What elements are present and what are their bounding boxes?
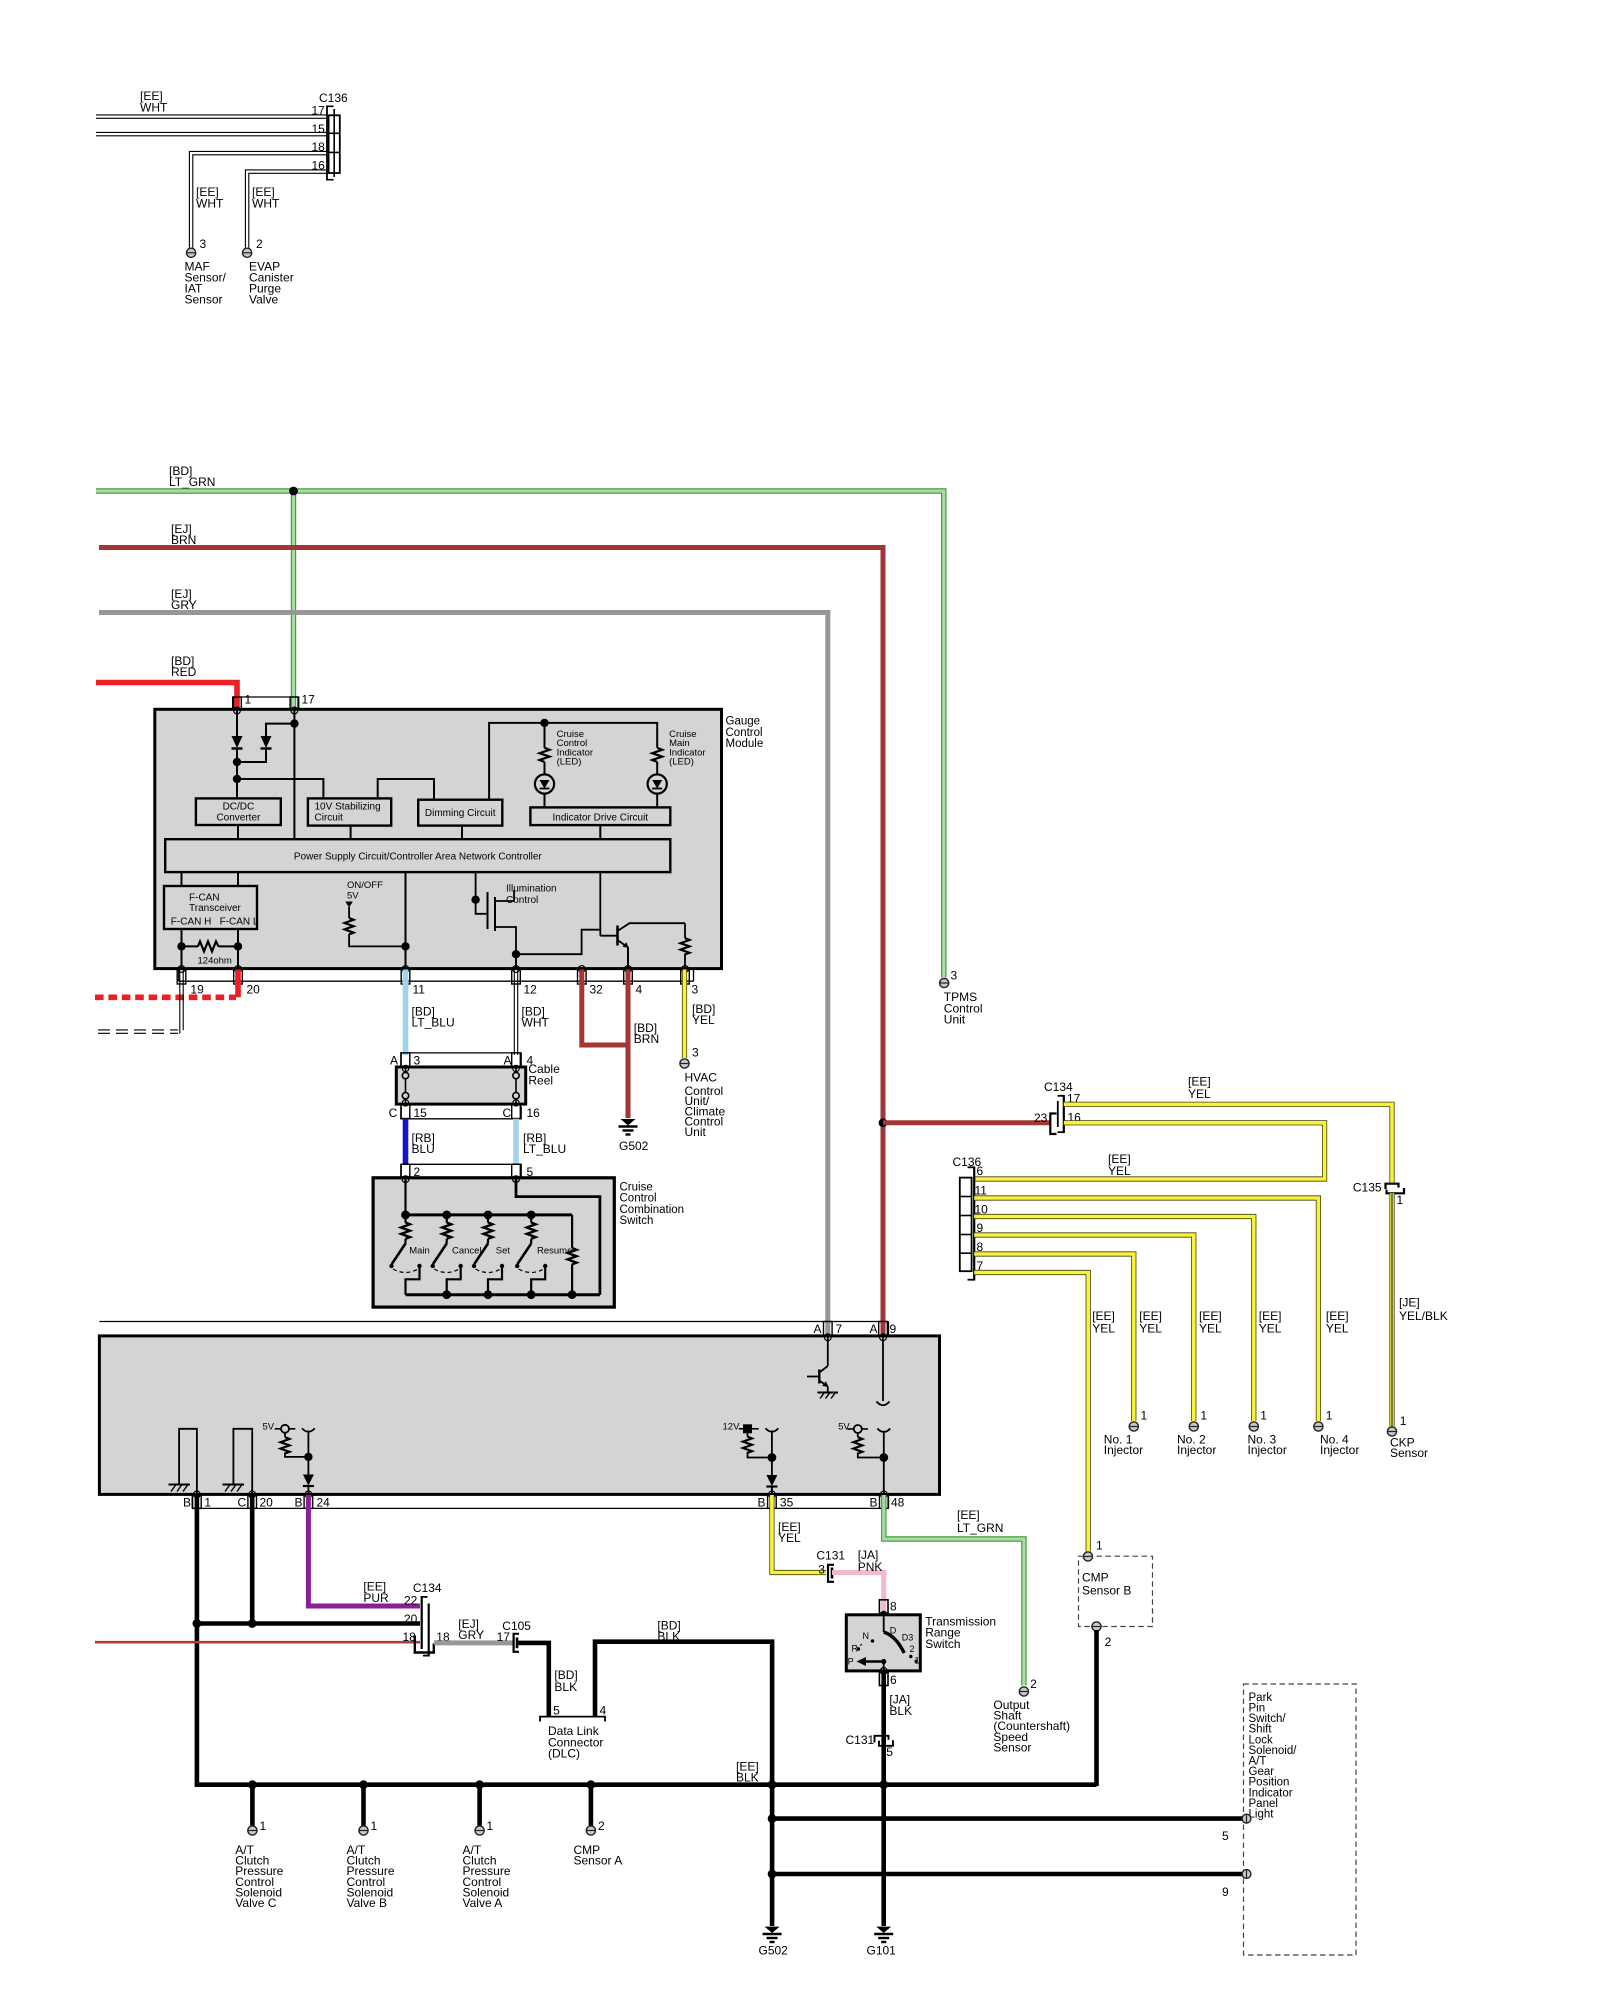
svg-text:Valve A: Valve A xyxy=(463,1896,503,1910)
svg-text:Injector: Injector xyxy=(1320,1443,1359,1457)
cable reel box xyxy=(396,1067,525,1104)
wire 10V box to controller xyxy=(350,826,352,840)
svg-text:[JE]: [JE] xyxy=(1399,1295,1420,1309)
ECM/PCM top pin row xyxy=(99,1321,888,1323)
svg-text:Sensor: Sensor xyxy=(185,293,223,307)
ground G101 xyxy=(876,1927,891,1933)
wire C-20 black down xyxy=(250,1495,255,1624)
svg-text:16: 16 xyxy=(527,1106,541,1120)
wire [JA] BLK TRS pin 6 to G101 xyxy=(881,1672,886,1926)
pin 12 xyxy=(513,966,520,973)
wire drop to CMP sensor A xyxy=(589,1785,594,1826)
svg-text:A: A xyxy=(504,1054,512,1068)
pin B-24 xyxy=(305,1491,312,1498)
wire LED supply rail xyxy=(489,723,657,800)
svg-text:20: 20 xyxy=(260,1496,274,1510)
svg-text:2: 2 xyxy=(1030,1677,1037,1691)
svg-text:Injector: Injector xyxy=(1248,1443,1287,1457)
TRS selector detail xyxy=(883,1612,885,1632)
wire [JE] YEL/BLK to CKP sensor xyxy=(1389,1193,1394,1427)
svg-text:YEL/BLK: YEL/BLK xyxy=(1399,1309,1448,1323)
svg-text:YEL: YEL xyxy=(1188,1087,1211,1101)
svg-text:5: 5 xyxy=(553,1704,560,1718)
svg-text:Control: Control xyxy=(620,1193,657,1205)
svg-text:C: C xyxy=(389,1106,398,1120)
svg-text:Light: Light xyxy=(1249,1809,1275,1821)
node bus dots xyxy=(401,1211,410,1220)
wire bridge 10V box to dimming box xyxy=(378,779,434,800)
wire IDC to controller xyxy=(599,825,601,839)
svg-text:6: 6 xyxy=(890,1673,897,1687)
CMP sensor B terminal 2 xyxy=(1092,1622,1101,1631)
svg-text:BLU: BLU xyxy=(412,1142,435,1156)
svg-text:G502: G502 xyxy=(759,1944,789,1958)
TRS pin 8 xyxy=(879,1600,888,1614)
svg-text:B: B xyxy=(295,1496,303,1510)
svg-text:8: 8 xyxy=(890,1600,897,1614)
svg-text:WHT: WHT xyxy=(140,101,168,115)
svg-text:YEL: YEL xyxy=(778,1531,801,1545)
node CMP sensor A tap xyxy=(587,1780,596,1789)
wire A-9 internal stub xyxy=(882,1337,884,1401)
svg-text:Switch: Switch xyxy=(925,1637,960,1651)
svg-text:Unit: Unit xyxy=(944,1013,966,1027)
svg-text:BRN: BRN xyxy=(171,533,196,547)
wire F-CAN H to pin 19 xyxy=(181,929,183,969)
node solenoid C tap xyxy=(248,1780,257,1789)
svg-text:LT_GRN: LT_GRN xyxy=(169,475,215,489)
wire drop to A/T solenoid C xyxy=(250,1785,255,1826)
10V stabilizing circuit box xyxy=(308,798,391,825)
pin B-48 xyxy=(880,1491,887,1498)
wire pin5 path xyxy=(516,1179,600,1295)
svg-text:1: 1 xyxy=(1400,1414,1407,1428)
cable reel pin row A xyxy=(401,1053,521,1066)
svg-text:C: C xyxy=(238,1496,247,1510)
svg-text:3: 3 xyxy=(200,237,207,251)
node G502 tap xyxy=(768,1780,777,1789)
resistor (cruise control indicator) xyxy=(540,748,550,762)
node xyxy=(512,950,520,958)
gauge module top pin row xyxy=(234,697,298,708)
svg-text:A: A xyxy=(814,1322,822,1336)
svg-text:WHT: WHT xyxy=(252,197,280,211)
svg-text:LT_GRN: LT_GRN xyxy=(957,1521,1003,1535)
data link connector DLC xyxy=(540,1717,605,1722)
svg-text:1: 1 xyxy=(371,1819,378,1833)
svg-text:ON/OFF: ON/OFF xyxy=(347,880,383,891)
svg-text:5V: 5V xyxy=(263,1422,275,1433)
svg-text:Transceiver: Transceiver xyxy=(189,903,242,914)
svg-text:C131: C131 xyxy=(816,1549,845,1563)
svg-text:3: 3 xyxy=(951,969,958,983)
svg-text:C135: C135 xyxy=(1353,1181,1382,1195)
ground G502 xyxy=(765,1927,780,1933)
svg-text:Main: Main xyxy=(409,1245,430,1256)
svg-text:BLK: BLK xyxy=(657,1630,680,1644)
pin 20 xyxy=(235,966,242,973)
wire drop to A/T solenoid A xyxy=(477,1785,482,1826)
park pin switch dashed box xyxy=(1244,1684,1357,1955)
svg-text:48: 48 xyxy=(891,1496,905,1510)
cable reel pin row C xyxy=(401,1106,521,1118)
svg-text:1: 1 xyxy=(260,1819,267,1833)
svg-text:2: 2 xyxy=(256,237,263,251)
svg-text:Valve B: Valve B xyxy=(347,1896,387,1910)
mosfet Q2 illumination driver xyxy=(487,892,489,929)
diode D2 xyxy=(261,736,272,748)
svg-text:23: 23 xyxy=(1034,1111,1048,1125)
svg-text:3: 3 xyxy=(414,1054,421,1068)
svg-text:Dimming Circuit: Dimming Circuit xyxy=(425,808,496,819)
wire tap to diode D2 xyxy=(266,724,294,736)
switch branch Resume xyxy=(530,1215,532,1223)
wire top bus xyxy=(406,1213,573,1216)
terminal park pin 5 xyxy=(1242,1814,1251,1823)
svg-text:Power Supply Circuit/Controlle: Power Supply Circuit/Controller Area Net… xyxy=(294,852,543,863)
svg-text:Reel: Reel xyxy=(528,1073,553,1087)
wire WHT to C136 pin 17 xyxy=(96,114,327,116)
wire [EE] YEL C136-10 to No.3 injector xyxy=(974,1217,1254,1422)
svg-text:C131: C131 xyxy=(846,1733,875,1747)
svg-text:P: P xyxy=(848,1657,854,1667)
pin 4 xyxy=(625,966,632,973)
svg-text:124ohm: 124ohm xyxy=(198,956,232,967)
diode to pin B-24 xyxy=(303,1475,314,1486)
wire [EE] PUR B-24 to C134 pin 22 xyxy=(308,1495,420,1606)
gauge control module U1 box xyxy=(155,709,722,968)
svg-text:5V: 5V xyxy=(347,891,359,902)
svg-text:22: 22 xyxy=(404,1593,418,1607)
node feed 10V xyxy=(233,775,241,783)
svg-text:20: 20 xyxy=(247,983,261,997)
svg-text:4: 4 xyxy=(600,1704,607,1718)
svg-text:18: 18 xyxy=(312,140,326,154)
svg-text:Converter: Converter xyxy=(216,813,261,824)
wire to 10V stabilizing circuit xyxy=(237,779,323,798)
svg-text:5: 5 xyxy=(1222,1829,1229,1843)
indicator drive circuit box xyxy=(530,807,670,825)
svg-text:5V: 5V xyxy=(838,1422,850,1433)
wire G502 drop + park pin feeds xyxy=(770,1785,775,1926)
svg-text:Switch: Switch xyxy=(620,1215,654,1227)
svg-text:F-CAN L: F-CAN L xyxy=(220,917,259,928)
wire bottom bus xyxy=(406,1293,600,1296)
svg-text:Sensor: Sensor xyxy=(1390,1446,1428,1460)
ground chassis (Q3 emitter) xyxy=(818,1392,839,1394)
svg-text:2: 2 xyxy=(910,1644,915,1654)
wire [EE] YEL B-35 to C131 pin 3 xyxy=(772,1495,826,1573)
svg-text:Sensor A: Sensor A xyxy=(574,1854,623,1868)
svg-text:1: 1 xyxy=(487,1819,494,1833)
wire mosfet source to controller return xyxy=(516,930,600,955)
wire BRN to C134 pin 23 xyxy=(883,1120,1051,1125)
wire [BD] LT_BLU pin 11 to cable reel A-3 xyxy=(403,970,409,1056)
resistor right leg xyxy=(571,1215,573,1248)
svg-text:YEL: YEL xyxy=(692,1013,715,1027)
pin 32 xyxy=(578,966,585,973)
svg-text:16: 16 xyxy=(312,159,326,173)
svg-text:1: 1 xyxy=(1200,1408,1207,1422)
wire [BD] BRN pin 32 xyxy=(582,970,628,1046)
svg-text:32: 32 xyxy=(590,983,604,997)
wire [EE] YEL C136-7 to CMP sensor B xyxy=(974,1273,1088,1552)
svg-text:Set: Set xyxy=(496,1245,511,1256)
svg-text:Injector: Injector xyxy=(1104,1443,1143,1457)
cruise switch pin row xyxy=(401,1164,521,1176)
svg-text:Valve C: Valve C xyxy=(235,1896,276,1910)
svg-text:15: 15 xyxy=(414,1106,428,1120)
cruise control combination switch box xyxy=(373,1178,614,1307)
node junction LT_GRN xyxy=(289,487,298,496)
svg-text:12: 12 xyxy=(524,983,538,997)
pin 3 xyxy=(682,966,689,973)
svg-text:9: 9 xyxy=(1222,1885,1229,1899)
wires controller to F-CAN transceiver xyxy=(181,872,183,886)
ECM/PCM box xyxy=(99,1336,939,1495)
svg-text:1: 1 xyxy=(1326,1408,1333,1422)
wire [RB] LT_BLU C-16 to switch pin 5 xyxy=(513,1119,519,1165)
svg-text:7: 7 xyxy=(836,1322,843,1336)
svg-text:1: 1 xyxy=(245,693,252,707)
svg-text:LT_BLU: LT_BLU xyxy=(412,1016,455,1030)
wire to pin 12 xyxy=(515,954,517,969)
node xyxy=(177,942,185,950)
pin B-35 xyxy=(769,1491,776,1498)
svg-text:Resume: Resume xyxy=(537,1245,572,1256)
svg-text:Valve: Valve xyxy=(249,293,278,307)
svg-text:Circuit: Circuit xyxy=(315,813,344,824)
pin C-20 xyxy=(249,1491,256,1498)
wire to park pin switch pin 9 xyxy=(772,1872,1243,1877)
svg-text:B: B xyxy=(183,1496,191,1510)
wire black to C134 pin 20 xyxy=(197,1621,420,1626)
svg-text:D: D xyxy=(890,1626,897,1636)
svg-text:F-CAN H: F-CAN H xyxy=(171,917,212,928)
pin 11 xyxy=(402,966,409,973)
svg-text:2: 2 xyxy=(598,1819,605,1833)
svg-text:3: 3 xyxy=(692,1046,699,1060)
wire B-1 black down xyxy=(195,1495,200,1787)
LED cruise control indicator xyxy=(535,774,554,793)
svg-text:B: B xyxy=(758,1496,766,1510)
svg-text:20: 20 xyxy=(404,1612,418,1626)
transistor Q3 (illumination input) xyxy=(827,1337,829,1366)
svg-text:YEL: YEL xyxy=(1139,1322,1162,1336)
wire thin red to C134 pin 18 xyxy=(95,1641,420,1644)
svg-text:1: 1 xyxy=(1141,1408,1148,1422)
svg-text:N: N xyxy=(863,1631,870,1641)
svg-text:Cancel: Cancel xyxy=(452,1245,482,1256)
svg-text:PUR: PUR xyxy=(363,1591,389,1605)
svg-text:Module: Module xyxy=(726,738,764,750)
wire to park pin switch pin 5 xyxy=(772,1816,1243,1821)
svg-text:19: 19 xyxy=(190,983,204,997)
wire [BD] WHT pin 12 to cable reel A-4 xyxy=(513,970,515,1055)
svg-text:3: 3 xyxy=(818,1563,825,1577)
pin circle 17 xyxy=(291,707,298,714)
svg-text:B: B xyxy=(870,1496,878,1510)
svg-text:C: C xyxy=(503,1106,512,1120)
svg-text:9: 9 xyxy=(890,1322,897,1336)
node xyxy=(471,896,479,904)
wire CMP sensor B pin 2 to ground bus xyxy=(1094,1630,1099,1786)
svg-text:HVAC: HVAC xyxy=(685,1071,718,1085)
wire controller to pin 11 xyxy=(405,872,407,969)
pin B-1 xyxy=(194,1491,201,1498)
svg-text:YEL: YEL xyxy=(1326,1322,1349,1336)
svg-text:3: 3 xyxy=(692,983,699,997)
svg-text:15: 15 xyxy=(312,122,326,136)
svg-text:YEL: YEL xyxy=(1092,1322,1115,1336)
svg-text:G101: G101 xyxy=(867,1944,897,1958)
F-CAN transceiver box xyxy=(164,886,257,929)
gauge module bottom pin row xyxy=(179,980,694,982)
wire controller to illumination gate xyxy=(476,872,487,914)
diode D1 xyxy=(232,736,243,748)
svg-text:(LED): (LED) xyxy=(557,757,582,768)
svg-text:BLK: BLK xyxy=(889,1704,912,1718)
wire [EE] YEL C136-8 to No.1 injector xyxy=(974,1254,1134,1421)
wire [RB] BLU C-15 to switch pin 2 xyxy=(403,1119,409,1165)
svg-text:2: 2 xyxy=(1105,1635,1112,1649)
wire WHT from C136 pin 16 to EVAP valve xyxy=(245,170,327,248)
wire WHT to C136 pin 15 xyxy=(96,131,327,133)
wire pin2 to top bus xyxy=(404,1179,406,1215)
dimming circuit box xyxy=(418,800,502,826)
wire [EJ] BRN horizontal, down to ECM A-9 xyxy=(99,548,883,1337)
svg-text:17: 17 xyxy=(312,103,326,117)
wire [EJ] GRY horizontal, down to ECM A-7 xyxy=(99,613,828,1337)
wire [JA] PNK C131 to TRS pin 8 xyxy=(832,1573,884,1613)
CMP sensor B dashed box xyxy=(1079,1556,1153,1626)
svg-text:F-CAN: F-CAN xyxy=(189,893,220,904)
wire [BD] RED to gauge pin 1 xyxy=(96,683,237,709)
wire [BD] YEL pin 3 to HVAC xyxy=(682,970,687,1059)
wire [EJ] GRY C134 to C105 xyxy=(434,1640,513,1645)
wire pin17 down xyxy=(293,710,295,839)
svg-text:[EE]: [EE] xyxy=(957,1508,980,1522)
svg-text:35: 35 xyxy=(780,1496,794,1510)
wire WHT from C136 pin 18 to MAF sensor xyxy=(189,151,327,247)
node LED rail xyxy=(540,719,548,727)
svg-text:Gauge: Gauge xyxy=(726,716,761,728)
node BRN tee to C134 xyxy=(879,1118,888,1127)
wire red dashed from pin 20 xyxy=(235,970,241,998)
svg-text:YEL: YEL xyxy=(1199,1322,1222,1336)
DC/DC converter box xyxy=(196,798,281,825)
wire [EE] YEL C136-11 to No.4 injector xyxy=(974,1198,1318,1421)
wire drop to A/T solenoid B xyxy=(361,1785,366,1826)
svg-text:G502: G502 xyxy=(619,1139,649,1153)
node solenoid B tap xyxy=(359,1780,368,1789)
diode to pin B-35 xyxy=(766,1475,777,1486)
node solenoid A tap xyxy=(475,1780,484,1789)
svg-text:10V Stabilizing: 10V Stabilizing xyxy=(315,802,381,813)
svg-text:YEL: YEL xyxy=(1108,1164,1131,1178)
svg-text:5: 5 xyxy=(886,1745,893,1759)
svg-text:17: 17 xyxy=(497,1630,511,1644)
svg-text:17: 17 xyxy=(302,693,316,707)
svg-text:RED: RED xyxy=(171,665,197,679)
resistor (cruise main indicator) xyxy=(652,748,662,762)
TRS pin 6 xyxy=(880,1668,887,1675)
transistor Q1 output driver xyxy=(600,935,617,937)
node diode join xyxy=(233,758,241,766)
svg-text:1: 1 xyxy=(1260,1408,1267,1422)
node xyxy=(401,942,409,950)
svg-text:LT_BLU: LT_BLU xyxy=(523,1142,566,1156)
ground G502 (BRN) xyxy=(621,1119,636,1126)
svg-text:A: A xyxy=(390,1054,398,1068)
svg-text:1: 1 xyxy=(1096,1539,1103,1553)
svg-text:11: 11 xyxy=(975,1183,988,1197)
svg-text:YEL: YEL xyxy=(1259,1322,1282,1336)
svg-text:BLK: BLK xyxy=(554,1680,577,1694)
svg-text:Cruise: Cruise xyxy=(620,1181,653,1193)
svg-text:(DLC): (DLC) xyxy=(548,1747,580,1761)
wire [EE] LT_GRN B-48 to output shaft sensor xyxy=(884,1495,1024,1686)
wire [BD] BLK DLC pin 4 to ground bus xyxy=(595,1642,772,1785)
wire DC/DC to controller xyxy=(237,825,239,839)
svg-text:PNK: PNK xyxy=(858,1560,883,1574)
svg-text:Combination: Combination xyxy=(620,1204,685,1216)
ground loop pin C-20 xyxy=(233,1429,252,1494)
node G101 tap xyxy=(879,1780,888,1789)
wire white dashed from pin 19 xyxy=(179,970,181,1034)
svg-text:D3: D3 xyxy=(902,1633,914,1643)
wire [BD] BLK C105 to DLC pin 5 xyxy=(517,1643,549,1716)
svg-text:GRY: GRY xyxy=(171,598,197,612)
cable reel inner contacts left xyxy=(402,1065,408,1071)
resistor 124ohm xyxy=(182,945,199,947)
svg-text:(LED): (LED) xyxy=(669,757,694,768)
ground loop pin B-1 xyxy=(179,1429,197,1494)
svg-text:WHT: WHT xyxy=(196,197,224,211)
wire [BD] BRN pin 4 to G502 xyxy=(626,970,631,1119)
LED cruise main indicator xyxy=(648,774,667,793)
svg-text:Unit: Unit xyxy=(685,1125,707,1139)
wire dimming box to controller xyxy=(461,826,463,840)
terminal park pin 9 xyxy=(1242,1870,1251,1879)
svg-text:Control: Control xyxy=(726,727,763,739)
wire F-CAN L to pin 20 xyxy=(237,929,239,969)
svg-text:WHT: WHT xyxy=(522,1016,550,1030)
svg-text:Injector: Injector xyxy=(1177,1443,1216,1457)
transmission range switch box xyxy=(846,1615,920,1671)
svg-text:DC/DC: DC/DC xyxy=(223,802,255,813)
node B-1 / C134-20 tap xyxy=(193,1619,202,1628)
wire [EE] YEL C136-9 to No.2 injector xyxy=(974,1235,1194,1421)
node pin17 tap xyxy=(290,719,298,727)
wire [EE] YEL C134-16 to C136 pin 6 xyxy=(974,1123,1324,1179)
wire pin1 to diode D1 xyxy=(236,710,238,736)
wire emitter to pin 4 xyxy=(627,947,629,969)
svg-text:BRN: BRN xyxy=(634,1032,659,1046)
switch branch Main xyxy=(404,1215,406,1223)
wire [EE] YEL C134-17 to C135 xyxy=(1064,1104,1392,1183)
svg-text:CMP: CMP xyxy=(1082,1571,1109,1585)
wire LT_GRN branch to gauge pin 17 xyxy=(291,491,296,708)
svg-text:A: A xyxy=(870,1322,878,1336)
svg-text:Sensor: Sensor xyxy=(993,1740,1031,1754)
svg-text:4: 4 xyxy=(636,983,643,997)
svg-text:11: 11 xyxy=(413,983,426,997)
pin 19 xyxy=(178,966,185,973)
resistor to pin 3 xyxy=(684,923,686,938)
power supply / CAN controller box xyxy=(165,839,670,872)
switch branch Set xyxy=(487,1215,489,1223)
